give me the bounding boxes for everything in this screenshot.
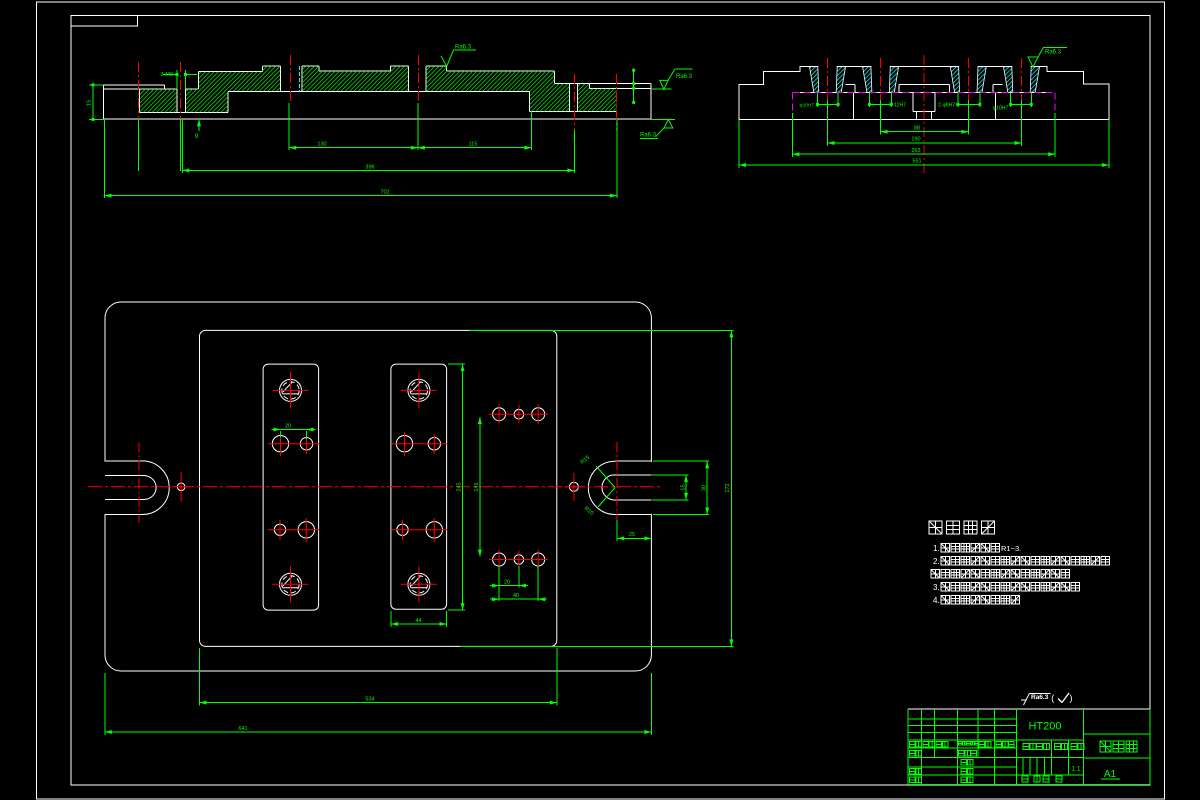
- label 3-M8: [160, 70, 197, 89]
- dim 40 holes: [490, 566, 547, 601]
- svg-text:1.: 1.: [933, 544, 940, 553]
- centerline view B: [923, 55, 925, 174]
- hidden contour magenta: [792, 92, 1055, 112]
- hatch left ear: [139, 89, 176, 113]
- hatch block3: [228, 66, 280, 92]
- svg-text:2-φ8H7: 2-φ8H7: [938, 103, 955, 109]
- svg-text:20: 20: [285, 424, 291, 430]
- slot1 top tapped hole: [273, 372, 309, 408]
- radius leader R10: [583, 488, 615, 517]
- svg-text:263: 263: [911, 148, 920, 154]
- svg-text:702: 702: [380, 189, 389, 195]
- slot2 row3 holes: [392, 518, 447, 542]
- hole row top: [489, 404, 548, 424]
- svg-text:20: 20: [504, 580, 510, 586]
- centerline right ear: [616, 74, 618, 130]
- technical requirements text: [929, 521, 1110, 605]
- slot1 bottom tapped hole: [273, 566, 309, 602]
- svg-text:130: 130: [317, 141, 326, 147]
- counterbored hole group 3: [950, 67, 986, 93]
- left U centerline: [138, 443, 140, 523]
- centerline hole group 4: [1021, 58, 1023, 100]
- counterbored hole group 2: [863, 67, 899, 93]
- slot1 row3 holes: [268, 518, 319, 542]
- hole row bottom: [489, 550, 548, 570]
- plan slot 1: [263, 364, 319, 610]
- slot2 bottom tapped hole: [401, 566, 437, 602]
- svg-text:172: 172: [725, 483, 731, 492]
- svg-text:Ra6.3: Ra6.3: [640, 133, 657, 139]
- svg-text:15: 15: [87, 100, 93, 106]
- Ra6.3 bottom: [640, 119, 675, 138]
- dim hole pair 4: [993, 103, 1033, 112]
- hatch block6: [578, 84, 617, 112]
- svg-text:88: 88: [914, 126, 920, 132]
- centerline M8 hole: [179, 62, 181, 135]
- dim hole pair 1: [800, 103, 840, 109]
- dim 88: [881, 126, 969, 134]
- dim 15 Uslot: [652, 475, 689, 500]
- dim 396: [182, 164, 574, 172]
- hatch block4: [302, 66, 409, 92]
- svg-text:245: 245: [457, 482, 463, 491]
- dim hole pair 3: [938, 103, 981, 109]
- centerline hole group 3: [967, 58, 969, 100]
- svg-text:HT200: HT200: [1028, 721, 1061, 733]
- dim 44 slot2: [391, 611, 447, 627]
- svg-text:R1~3.: R1~3.: [1001, 544, 1021, 553]
- svg-text:15: 15: [681, 484, 687, 490]
- svg-text:641: 641: [238, 726, 247, 732]
- svg-text:12H7: 12H7: [894, 103, 906, 109]
- svg-text:396: 396: [365, 164, 374, 170]
- dim 190: [828, 137, 1022, 145]
- plan outer plate: [105, 302, 651, 671]
- Ra6.3 top boss: [441, 45, 476, 67]
- left U slot: [104, 461, 169, 515]
- svg-text:30: 30: [702, 485, 708, 491]
- svg-text:25: 25: [629, 532, 635, 538]
- dim 551: [739, 159, 1109, 167]
- plan slot 2: [391, 364, 447, 609]
- dim 534: [200, 648, 557, 706]
- Ra6.3 right ear: [652, 69, 693, 89]
- counterbored hole group 4: [1004, 67, 1040, 93]
- svg-text:φ10H7: φ10H7: [800, 103, 815, 109]
- dim 263: [792, 148, 1055, 156]
- svg-text:44: 44: [415, 618, 421, 624]
- plan main centerline: [88, 486, 663, 488]
- right U slot: [588, 461, 652, 514]
- dim 172 overall: [460, 330, 734, 646]
- hatch block2: [186, 72, 229, 113]
- svg-text:551: 551: [912, 159, 921, 165]
- slot1 row2 holes: [268, 432, 319, 456]
- dim 641: [105, 673, 652, 735]
- centerline hole group 2: [880, 58, 882, 100]
- mini dim 9: [195, 119, 201, 140]
- section view B outline: [739, 66, 1109, 120]
- svg-text:40: 40: [513, 593, 519, 599]
- dim right ear: [632, 69, 635, 104]
- dim hole pair 2: [868, 103, 906, 109]
- svg-text:534: 534: [365, 696, 374, 702]
- dim 702: [105, 189, 617, 197]
- hatch block5: [426, 66, 570, 112]
- surface finish note: [1021, 693, 1073, 705]
- svg-text:1:1: 1:1: [1071, 766, 1080, 773]
- radius leader R15: [580, 455, 615, 488]
- svg-text:): ): [1070, 693, 1073, 703]
- slot2 top tapped hole: [401, 372, 437, 408]
- dim slot2 height: [448, 364, 465, 610]
- dim 25 Uslot: [617, 520, 651, 541]
- svg-text:Ra6.3: Ra6.3: [1045, 50, 1062, 56]
- title block text: [910, 721, 1138, 783]
- svg-text:A1: A1: [1104, 769, 1117, 780]
- dim 20 slot1: [272, 424, 316, 440]
- centerline hole1: [289, 55, 291, 103]
- dim 115: [418, 141, 532, 149]
- slot2 row2 holes: [392, 432, 447, 456]
- svg-text:Ra6.3: Ra6.3: [1031, 694, 1049, 701]
- counterbored hole group 1: [810, 67, 846, 93]
- svg-text:190: 190: [911, 137, 920, 143]
- section view A outline: [104, 66, 652, 119]
- svg-text:Ra6.3: Ra6.3: [676, 74, 693, 80]
- dimension extension lines view2: [739, 92, 1109, 168]
- dim hole rows: [474, 417, 482, 557]
- centerline hole2: [418, 55, 420, 103]
- svg-text:145: 145: [474, 482, 480, 491]
- svg-text:2.: 2.: [933, 557, 940, 566]
- centerline hole group 1: [827, 58, 829, 100]
- svg-text:3.: 3.: [933, 583, 940, 592]
- left locating hole: [172, 472, 190, 502]
- dim 30 Uslot: [653, 461, 709, 514]
- svg-text:4.: 4.: [933, 596, 940, 605]
- dimension extension lines view1: [105, 103, 617, 198]
- title block grid: [908, 709, 1150, 784]
- right U centerline: [616, 442, 618, 532]
- dim 15 left: [87, 83, 104, 121]
- centerline hole3: [573, 74, 575, 130]
- plan raised platform: [200, 330, 557, 646]
- zone label box top-left: [71, 15, 138, 26]
- svg-text:(: (: [1051, 693, 1054, 703]
- svg-text:φ10H7: φ10H7: [993, 106, 1008, 112]
- thread line cyan hole1: [298, 66, 300, 92]
- svg-text:115: 115: [469, 141, 478, 147]
- centerline ear hole: [138, 62, 140, 135]
- dim 130: [289, 141, 418, 149]
- right locating hole: [565, 473, 583, 501]
- Ra6.3 view B: [1028, 47, 1067, 67]
- dim 20 holes: [490, 580, 528, 588]
- svg-text:Ra6.3: Ra6.3: [455, 45, 472, 51]
